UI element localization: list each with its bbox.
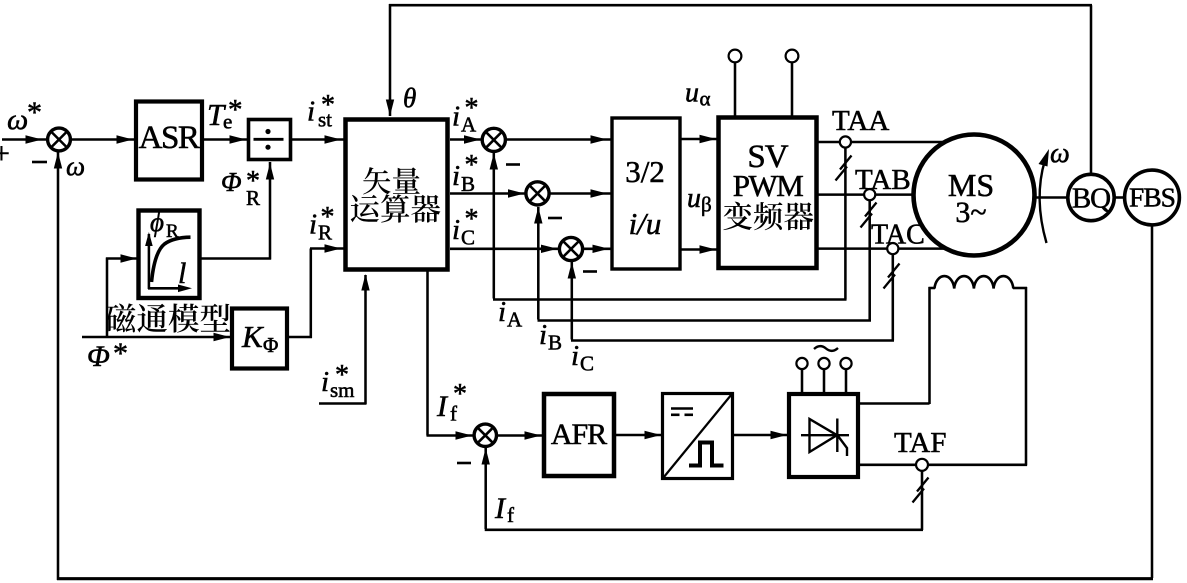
svg-text:*: * bbox=[335, 360, 349, 391]
arrowhead into flux curve block bbox=[121, 254, 138, 262]
wire summing junction A to 3/2 block bbox=[505, 138, 611, 141]
rectifier AC terminal circles bbox=[796, 358, 807, 369]
svg-text:i: i bbox=[571, 340, 579, 372]
wire theta top line from BQ bbox=[1090, 5, 1093, 175]
label CJK vector calculator line1 bbox=[363, 167, 390, 194]
svg-text:+: + bbox=[0, 137, 10, 170]
arrowhead i_B up into summing junction B bbox=[534, 207, 542, 224]
magnetization curve bbox=[152, 237, 191, 282]
AC tilde above rectifier bbox=[814, 346, 838, 351]
svg-text:TAC: TAC bbox=[871, 220, 925, 251]
arrowhead u_alpha into SVPWM bbox=[700, 135, 717, 143]
wire rectifier return through TAF bbox=[858, 464, 1027, 467]
tacho BQ bbox=[1068, 174, 1114, 220]
wire summing junction B to 3/2 block bbox=[549, 192, 611, 195]
wire rectifier positive output to field winding bbox=[858, 402, 930, 405]
summing junction field current bbox=[474, 424, 496, 446]
arrowhead u_beta into SVPWM bbox=[700, 245, 717, 253]
slash mark TAA secondary bbox=[836, 156, 852, 181]
svg-text:*: * bbox=[453, 379, 467, 410]
trigger DC symbol bbox=[671, 407, 693, 410]
curve block horizontal axis bbox=[148, 287, 184, 290]
arrowhead i_sm* up into vector block bbox=[361, 274, 369, 291]
svg-text:i: i bbox=[452, 160, 460, 192]
arrowhead into summing junction B bbox=[508, 189, 525, 197]
wire phase C SVPWM to motor bbox=[818, 247, 952, 250]
wire speed feedback bottom from FBS bbox=[1151, 225, 1154, 578]
arrowhead into K_Phi bbox=[214, 333, 231, 341]
arrowhead into ASR bbox=[117, 135, 134, 143]
minus sign at speed junction bbox=[32, 161, 47, 164]
block trigger converter bbox=[663, 394, 733, 479]
summing junction phase B bbox=[526, 182, 549, 205]
wire i_sm* input into vector block bottom bbox=[319, 402, 367, 405]
SVPWM supply terminal circles bbox=[729, 50, 742, 63]
trigger diagonal bbox=[664, 395, 732, 478]
svg-text:K: K bbox=[241, 319, 265, 354]
svg-text:TAF: TAF bbox=[894, 427, 946, 459]
svg-text:PWM: PWM bbox=[733, 168, 804, 203]
block thyristor rectifier bbox=[789, 394, 858, 477]
wire vector i_B* output to summing junction B bbox=[450, 192, 526, 195]
svg-text:ω: ω bbox=[66, 151, 85, 181]
current transformer TAF bbox=[916, 459, 928, 471]
motor MS 3-phase bbox=[914, 135, 1035, 256]
svg-text:i: i bbox=[498, 296, 506, 328]
wire ASR to divider bbox=[203, 138, 247, 141]
svg-text:BQ: BQ bbox=[1072, 183, 1111, 215]
arrowhead into 3/2 block line C bbox=[593, 245, 610, 253]
block 3/2 coordinate transform bbox=[612, 118, 680, 269]
arrowhead into trigger unit bbox=[645, 431, 662, 439]
current transformer TAB bbox=[864, 189, 875, 200]
wire K_Phi output to vector block i_R* bbox=[288, 336, 312, 339]
svg-text:ASR: ASR bbox=[139, 120, 200, 156]
svg-text:Φ: Φ bbox=[221, 167, 242, 197]
wire vector block down to I_f* junction bbox=[426, 271, 429, 436]
summing junction speed error bbox=[48, 128, 71, 151]
wire field junction to AFR bbox=[496, 434, 542, 437]
svg-text:ω: ω bbox=[1050, 138, 1070, 169]
svg-text:*: * bbox=[465, 204, 479, 235]
label CJK flux model bbox=[106, 303, 136, 332]
svg-text:ω: ω bbox=[7, 103, 28, 136]
svg-text:*: * bbox=[246, 166, 260, 197]
tacho FBS bbox=[1125, 170, 1180, 225]
svg-text:θ: θ bbox=[403, 83, 416, 113]
svg-text:i: i bbox=[452, 214, 460, 246]
block flux magnetization curve bbox=[139, 211, 200, 299]
svg-text:*: * bbox=[27, 96, 42, 129]
arrowhead into 3/2 block line B bbox=[591, 189, 608, 197]
svg-text:C: C bbox=[580, 352, 594, 376]
svg-text:*: * bbox=[321, 202, 335, 233]
arrowhead omega feedback up into summing junction bbox=[54, 152, 62, 169]
divide symbol bbox=[254, 129, 284, 150]
wire summing junction C to 3/2 block bbox=[583, 248, 611, 251]
svg-text:α: α bbox=[700, 87, 711, 111]
wire i_C current feedback bbox=[892, 254, 895, 341]
wire flux curve output to divider bbox=[200, 257, 271, 260]
wire vector i_A* output to summing junction A bbox=[450, 138, 482, 141]
wire u_alpha 3/2 to SVPWM bbox=[680, 138, 719, 141]
svg-text:*: * bbox=[113, 337, 128, 370]
block K_Phi flux coefficient bbox=[232, 309, 287, 369]
minus sign at field junction bbox=[457, 462, 471, 465]
slash mark TAB secondary bbox=[861, 203, 877, 228]
wire phase B SVPWM to motor bbox=[818, 193, 920, 196]
label CJK vector calculator line2 bbox=[351, 195, 379, 222]
svg-text:ϕ: ϕ bbox=[150, 207, 164, 237]
svg-text:β: β bbox=[701, 193, 712, 217]
wire i_A current feedback bbox=[844, 148, 847, 300]
svg-text:TAB: TAB bbox=[855, 164, 911, 196]
wire summing junction to ASR bbox=[71, 138, 134, 141]
svg-text:3/2: 3/2 bbox=[625, 154, 665, 189]
minus sign at junction A bbox=[506, 163, 520, 166]
svg-text:*: * bbox=[321, 90, 335, 121]
arrowhead omega* input bbox=[26, 135, 43, 143]
svg-text:i: i bbox=[307, 96, 315, 128]
wire AFR to trigger unit bbox=[614, 434, 662, 437]
wire flux model input riser bbox=[106, 258, 109, 338]
arrowhead i_C up into summing junction C bbox=[568, 262, 576, 279]
slash mark TAF secondary bbox=[913, 478, 929, 503]
summing junction phase C bbox=[559, 237, 582, 260]
wire divider to vector block i_st* bbox=[292, 138, 344, 141]
block ASR speed regulator bbox=[136, 102, 202, 180]
block SV PWM inverter bbox=[719, 118, 817, 269]
svg-text:i/u: i/u bbox=[629, 206, 662, 241]
wire SVPWM DC supply terminal stems bbox=[734, 62, 737, 117]
arrowhead into divider bbox=[230, 135, 247, 143]
arrowhead into summing junction A bbox=[464, 135, 481, 143]
wire BQ to FBS bbox=[1114, 196, 1125, 199]
block divider bbox=[249, 120, 291, 160]
svg-text:TAA: TAA bbox=[832, 105, 889, 137]
svg-text:l: l bbox=[178, 257, 186, 290]
wire vector i_C* output to summing junction C bbox=[450, 248, 558, 251]
current transformer TAC bbox=[887, 243, 898, 254]
arrowhead into 3/2 block line A bbox=[591, 135, 608, 143]
wire Phi* input to K_Phi bbox=[82, 336, 231, 339]
svg-text:R: R bbox=[166, 221, 179, 242]
wire field winding connections bbox=[929, 287, 936, 290]
svg-text:f: f bbox=[507, 503, 514, 527]
wire motor shaft to BQ bbox=[1035, 196, 1068, 199]
arrowhead i_A up into summing junction A bbox=[490, 153, 498, 170]
wire trigger unit to rectifier bbox=[732, 434, 788, 437]
block AFR field current regulator bbox=[544, 394, 614, 476]
svg-text:*: * bbox=[465, 150, 479, 181]
minus sign at junction B bbox=[548, 217, 562, 220]
wire u_beta 3/2 to SVPWM bbox=[680, 248, 719, 251]
minus sign at junction C bbox=[583, 270, 597, 273]
svg-text:Φ: Φ bbox=[87, 340, 110, 373]
thyristor symbol bbox=[801, 419, 849, 457]
arrowhead into vector block i_st* bbox=[325, 135, 342, 143]
inductor field winding of motor bbox=[935, 276, 1014, 288]
wire omega* input to summing junction bbox=[2, 138, 48, 141]
arrowhead I_f* into field summing junction bbox=[456, 431, 473, 439]
svg-text:i: i bbox=[539, 319, 547, 351]
svg-text:*: * bbox=[465, 93, 479, 124]
svg-text:AFR: AFR bbox=[551, 418, 607, 451]
svg-text:*: * bbox=[228, 94, 243, 126]
summing junction phase A bbox=[482, 128, 505, 151]
svg-text:i: i bbox=[452, 101, 460, 133]
block vector calculator bbox=[346, 120, 448, 270]
current transformer TAA bbox=[840, 136, 851, 147]
svg-text:3~: 3~ bbox=[955, 196, 986, 229]
arrowhead I_f up into field summing junction bbox=[482, 448, 490, 465]
arrowhead PhiR* up into divider bbox=[266, 163, 274, 180]
trigger pulse symbol bbox=[689, 443, 724, 466]
arrowhead into AFR bbox=[525, 431, 542, 439]
wire i_B current feedback bbox=[868, 200, 871, 321]
rotation arrow omega at motor shaft bbox=[1040, 160, 1047, 243]
svg-text:Φ: Φ bbox=[263, 333, 278, 357]
curve block vertical axis bbox=[148, 234, 151, 289]
slash mark TAC secondary bbox=[884, 264, 900, 289]
arrowhead theta down into vector block bbox=[386, 100, 394, 117]
svg-text:u: u bbox=[685, 78, 699, 109]
label CJK inverter bbox=[723, 202, 752, 231]
svg-text:FBS: FBS bbox=[1129, 182, 1175, 213]
arrowhead into vector block i_R* bbox=[325, 244, 342, 252]
svg-text:B: B bbox=[548, 331, 562, 355]
svg-text:i: i bbox=[321, 366, 329, 398]
arrowhead into summing junction C bbox=[541, 245, 558, 253]
wire rectifier AC terminal stems bbox=[801, 369, 804, 394]
wire I_f feedback from TAF bbox=[921, 470, 924, 530]
svg-text:u: u bbox=[687, 183, 701, 214]
svg-text:i: i bbox=[309, 209, 317, 241]
svg-text:A: A bbox=[507, 308, 523, 332]
arrowhead into rectifier bbox=[771, 431, 788, 439]
wire phase A SVPWM to motor bbox=[818, 141, 945, 144]
